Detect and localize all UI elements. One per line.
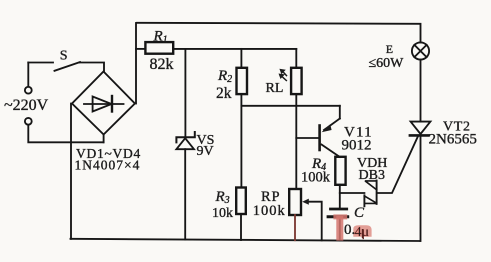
svg-text:RL: RL (266, 81, 284, 96)
svg-text:82k: 82k (150, 56, 174, 73)
svg-text:1N4007×4: 1N4007×4 (75, 157, 141, 172)
svg-text:2N6565: 2N6565 (429, 132, 477, 148)
svg-text:DB3: DB3 (359, 168, 385, 183)
svg-text:4μ: 4μ (355, 225, 370, 240)
svg-text:10k: 10k (212, 206, 233, 221)
svg-text:0.: 0. (344, 222, 355, 238)
svg-text:E: E (386, 42, 393, 56)
svg-text:100k: 100k (301, 170, 331, 186)
svg-text:C: C (354, 205, 365, 221)
svg-text:9012: 9012 (342, 138, 372, 154)
svg-text:100k: 100k (253, 203, 286, 219)
svg-text:9V: 9V (197, 144, 214, 159)
svg-text:≤60W: ≤60W (369, 56, 405, 71)
svg-text:~220V: ~220V (4, 97, 49, 114)
svg-text:S: S (60, 48, 68, 63)
svg-text:2k: 2k (216, 85, 232, 102)
